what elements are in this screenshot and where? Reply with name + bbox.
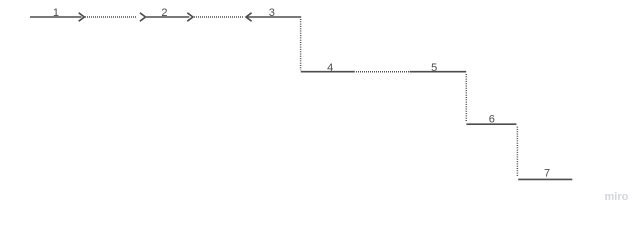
arrowhead of dotted connector (right) bbox=[140, 13, 146, 21]
wire segment 5 bbox=[410, 71, 467, 73]
dotted connector 1-2 bbox=[85, 16, 137, 18]
svg-text:2: 2 bbox=[161, 7, 167, 19]
arrowhead of segment 1 (right) bbox=[79, 13, 85, 21]
wire segment 4 bbox=[301, 71, 355, 73]
wire segment 7 bbox=[518, 178, 572, 180]
svg-text:6: 6 bbox=[489, 113, 495, 125]
arrowhead of segment 3 (left) bbox=[246, 13, 252, 21]
arrowhead of segment 2 (right) bbox=[187, 13, 193, 21]
dotted connector 4-5 bbox=[356, 71, 409, 73]
vertical dotted drop 5-6 bbox=[465, 74, 467, 122]
svg-text:miro: miro bbox=[605, 191, 629, 203]
svg-text:7: 7 bbox=[544, 168, 550, 180]
svg-text:4: 4 bbox=[327, 62, 333, 74]
vertical dotted drop 6-7 bbox=[516, 127, 518, 177]
wire segment 1 bbox=[30, 16, 82, 18]
svg-text:1: 1 bbox=[53, 7, 59, 19]
svg-text:3: 3 bbox=[269, 7, 275, 19]
wire segment 3 bbox=[247, 16, 301, 18]
vertical dotted drop 3-4 bbox=[300, 19, 302, 70]
svg-text:5: 5 bbox=[431, 62, 437, 74]
wire segment 6 bbox=[466, 123, 516, 125]
wire segment 2 bbox=[146, 16, 189, 18]
dotted connector 2-3 bbox=[194, 16, 243, 18]
